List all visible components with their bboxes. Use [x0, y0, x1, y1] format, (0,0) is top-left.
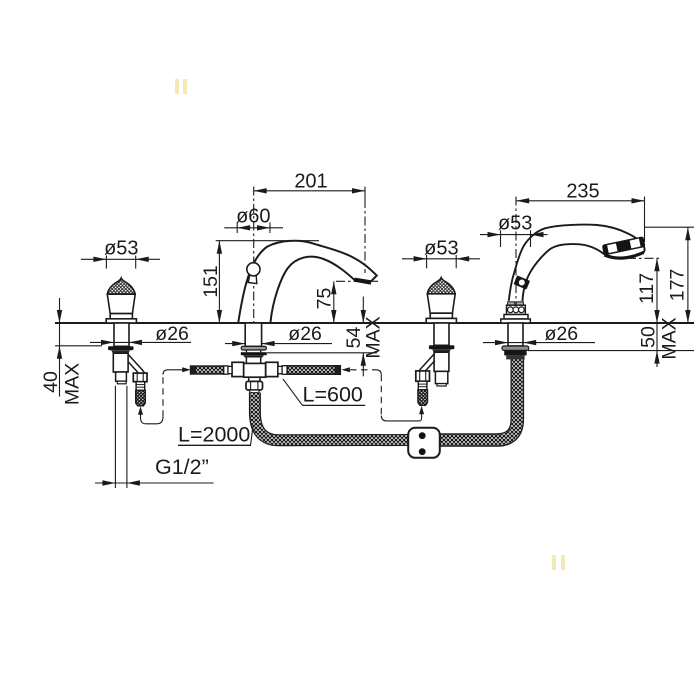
handle H2 knob: [426, 278, 456, 323]
spout diverter knob: [248, 275, 257, 284]
spout body: [238, 241, 377, 323]
tee bottom nut: [246, 381, 263, 390]
svg-text:ø26: ø26: [155, 323, 189, 345]
svg-text:L=2000: L=2000: [178, 422, 250, 446]
hose L2000 shower side: [440, 358, 517, 440]
handle H2 hose nut: [416, 371, 430, 381]
dimension 75: [336, 280, 378, 282]
tee body: [244, 363, 266, 377]
svg-text:50: 50: [638, 326, 660, 348]
svg-text:40: 40: [40, 371, 62, 393]
handle H2 flow arrow: [421, 410, 423, 418]
spout washer: [241, 346, 266, 350]
hand shower spray face: [605, 252, 644, 258]
svg-text:235: 235: [566, 180, 599, 202]
svg-text:ø26: ø26: [545, 323, 579, 345]
tee neck: [246, 358, 260, 364]
svg-text:MAX: MAX: [363, 316, 385, 358]
handle H2 valve body: [434, 352, 449, 371]
handle H1 locknut: [108, 346, 134, 350]
dimension 201: [254, 190, 365, 192]
handle H2 tailpiece: [435, 371, 447, 383]
handle H2 shank below deck: [434, 323, 449, 345]
tee bottom neck: [249, 377, 260, 381]
svg-text:L=600: L=600: [303, 383, 363, 407]
hand shower washer: [502, 346, 529, 350]
supply hose right L600: [287, 366, 340, 375]
svg-text:MAX: MAX: [62, 363, 84, 405]
svg-text:75: 75: [314, 288, 336, 310]
hand shower body: [509, 225, 645, 301]
svg-text:151: 151: [200, 265, 222, 298]
hand shower cradle collar: [508, 302, 515, 305]
svg-text:ø26: ø26: [288, 323, 322, 345]
dimension 117: [627, 257, 661, 259]
connector arrow right hose: [341, 367, 350, 372]
handle H1 hose tail braided: [136, 390, 146, 406]
svg-text:G1/2”: G1/2”: [155, 455, 209, 479]
dimension 50 MAX: [528, 350, 694, 352]
spout locknut: [241, 352, 267, 355]
tee left nut: [232, 362, 244, 376]
handle H2 hose adapter: [418, 381, 427, 390]
handle H1 hose adapter: [136, 382, 145, 391]
handle H1 valve body: [113, 353, 128, 372]
dimension 54 MAX: [267, 352, 377, 354]
svg-text:ø53: ø53: [424, 238, 458, 260]
svg-text:117: 117: [636, 273, 658, 304]
dimension 235: [516, 200, 644, 202]
dimension o26 left: [90, 341, 191, 343]
shower centerline: [515, 197, 517, 324]
handle H1 flow arrow: [140, 411, 142, 418]
G1/2 extension lines: [115, 386, 127, 488]
supply hose left L600: [191, 366, 224, 374]
handle H2 side outlet tube: [418, 353, 435, 376]
handle H1 side outlet tube: [128, 354, 145, 377]
watermark: [175, 79, 565, 570]
dimension 151: [216, 240, 319, 242]
hand shower face ring: [603, 237, 646, 255]
handle H1 knob: [106, 278, 136, 323]
dimension 177: [645, 226, 695, 228]
svg-text:ø60: ø60: [236, 206, 270, 228]
handle H2 locknut: [429, 345, 455, 349]
tee right ring: [278, 366, 282, 373]
dimension o26 spout: [225, 343, 332, 345]
spout shank below deck: [245, 323, 261, 346]
handle H1 shank below deck: [114, 323, 129, 346]
svg-text:201: 201: [294, 170, 327, 192]
connector path dashed left: [141, 417, 164, 424]
hand shower deck flange: [504, 315, 528, 320]
hose weight block: [408, 428, 440, 458]
svg-text:ø53: ø53: [498, 213, 532, 235]
dimension 40 MAX: [55, 345, 102, 347]
deck line: [55, 322, 694, 324]
tee left ring: [228, 366, 232, 373]
svg-text:MAX: MAX: [659, 317, 681, 359]
connector path dashed right: [350, 369, 376, 371]
handle H1 tailpiece: [116, 372, 127, 381]
hand shower cradle ring: [507, 305, 526, 314]
svg-text:177: 177: [667, 269, 689, 302]
hand shower shank below deck: [508, 323, 523, 346]
hand shower holder clamp: [513, 275, 530, 289]
dimension o53 left handle: [81, 256, 160, 269]
svg-text:ø53: ø53: [104, 238, 138, 260]
tee right nut: [266, 362, 278, 376]
handle H1 hose nut: [133, 373, 147, 382]
dimension o53 handle 2: [402, 255, 480, 268]
handle H2 hose tail braided: [418, 390, 428, 406]
hand shower locknut: [504, 350, 526, 355]
spout centerline: [253, 187, 255, 324]
spout aerator: [354, 278, 372, 285]
dimension G1/2: [95, 482, 214, 484]
dimension o26 shower: [483, 342, 595, 344]
hose L2000 spout side: [255, 393, 409, 441]
